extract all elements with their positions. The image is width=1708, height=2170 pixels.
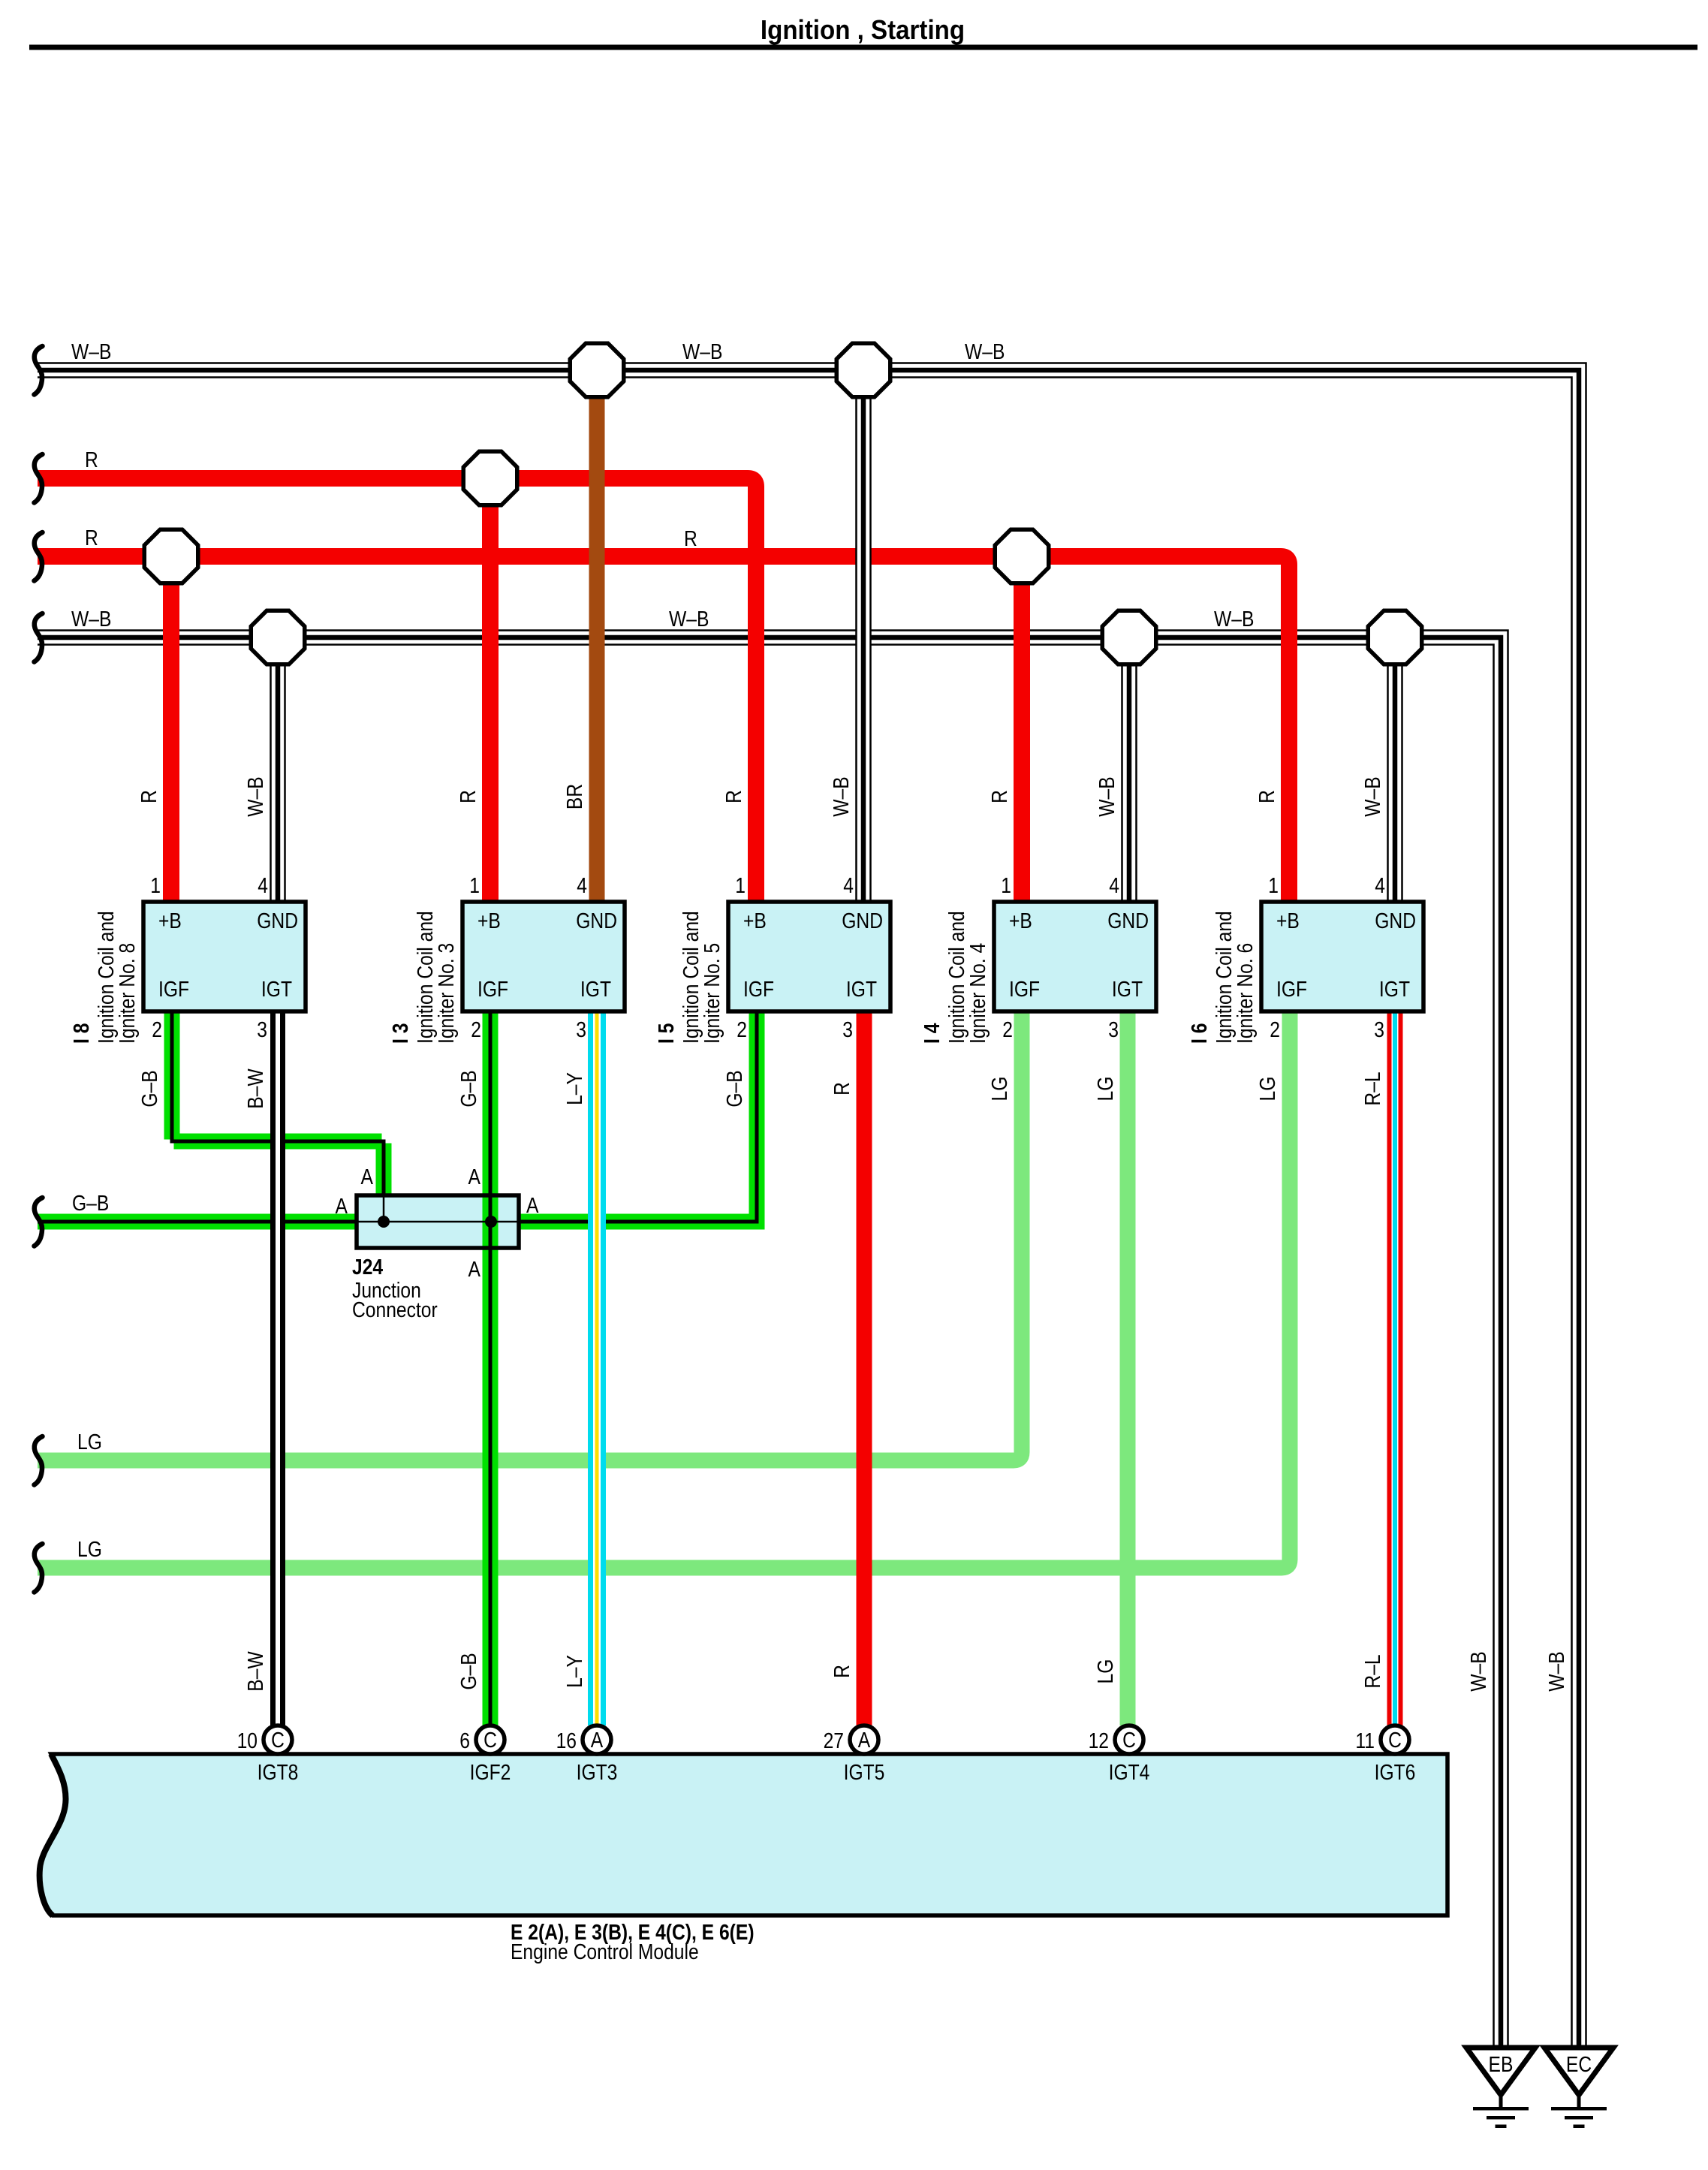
wire W-B bus 2 (horizontal, turns down at right to ground EB) xyxy=(38,637,1501,2047)
ECM terminal circle IGT8 connector C xyxy=(264,1725,292,1754)
junction octagon on R bus 2 (I4 +B tap) xyxy=(995,529,1049,583)
svg-text:A: A xyxy=(526,1193,538,1217)
svg-text:IGF: IGF xyxy=(1009,977,1040,1001)
junction octagon on R bus 1 (I3 +B tap) xyxy=(463,451,517,505)
junction octagon on W-B bus 1 (BR tap) xyxy=(570,343,624,397)
wire R from octagon on R bus 2 down to I8 +B pin 1 xyxy=(163,556,179,906)
ground EB bar 3 xyxy=(1496,2125,1507,2129)
svg-text:IGT: IGT xyxy=(1112,977,1143,1001)
wire W-B bus 1 (horizontal, turns down at right to ground EC) xyxy=(38,370,1579,2047)
svg-text:+B: +B xyxy=(1009,909,1032,933)
wire B-W from I8 IGT pin 3 down to ECM terminal IGT8 xyxy=(270,1008,285,1725)
junction octagon on R bus 2 (I8 +B tap) xyxy=(144,529,198,583)
svg-text:R: R xyxy=(721,790,746,803)
svg-text:+B: +B xyxy=(158,909,182,933)
svg-text:W–B: W–B xyxy=(829,776,853,816)
wire R from octagon on R bus 1 down to I3 +B pin 1 xyxy=(482,478,499,906)
svg-text:C: C xyxy=(1388,1728,1402,1752)
svg-text:A: A xyxy=(591,1728,603,1752)
svg-text:I 4: I 4 xyxy=(920,1023,944,1044)
wire BR from octagon on W-B bus 1 down to I3 GND pin 4 xyxy=(589,370,605,906)
svg-text:27: 27 xyxy=(824,1728,844,1753)
wire R from I5 IGT pin 3 down to ECM terminal IGT5 xyxy=(857,1008,872,1725)
svg-text:W–B: W–B xyxy=(243,776,267,816)
ignition coil and igniter I 5 box xyxy=(728,902,890,1011)
svg-text:G–B: G–B xyxy=(137,1070,161,1107)
ground EC triangle xyxy=(1544,2048,1613,2095)
svg-text:Igniter No. 3: Igniter No. 3 xyxy=(434,943,458,1044)
engine control module torn edge stroke xyxy=(40,1754,66,1915)
svg-text:G–B: G–B xyxy=(456,1070,480,1107)
continuation symbol for W-B bus 1 xyxy=(35,346,43,395)
svg-text:W–B: W–B xyxy=(682,339,722,363)
svg-text:1: 1 xyxy=(150,873,161,897)
svg-text:R: R xyxy=(137,790,161,803)
wire LG from I4 IGT pin 3 down to ECM terminal IGT4 xyxy=(1120,1008,1136,1725)
ground EB bar 2 xyxy=(1487,2116,1515,2120)
svg-text:R: R xyxy=(1255,790,1279,803)
svg-text:R: R xyxy=(85,448,98,472)
svg-text:4: 4 xyxy=(1375,873,1385,897)
ground EB stem xyxy=(1499,2094,1503,2108)
svg-text:LG: LG xyxy=(1093,1659,1117,1684)
svg-text:W–B: W–B xyxy=(1095,776,1119,816)
J24 junction dot A (right) xyxy=(485,1216,497,1228)
svg-text:I 3: I 3 xyxy=(388,1023,412,1044)
junction connector J24 box fill xyxy=(357,1195,519,1248)
svg-text:A: A xyxy=(468,1165,480,1189)
wire R bus 2 (horizontal, turns down at x=1717 to I6 +B) xyxy=(38,556,1289,906)
svg-text:I 8: I 8 xyxy=(69,1023,93,1044)
wire G-B from I8 IGF pin 2 down then right then down into J24 pin A xyxy=(172,1008,384,1196)
svg-text:A: A xyxy=(858,1728,870,1752)
svg-text:R: R xyxy=(85,526,98,550)
junction octagon on W-B bus 2 (I6 GND tap) xyxy=(1368,610,1422,665)
svg-text:1: 1 xyxy=(469,873,480,897)
svg-text:GND: GND xyxy=(1107,909,1149,933)
wire R from octagon on R bus 2 down to I4 +B pin 1 xyxy=(1014,556,1030,906)
svg-text:LG: LG xyxy=(987,1077,1011,1102)
continuation symbol for R bus 2 xyxy=(35,532,43,581)
svg-text:GND: GND xyxy=(257,909,298,933)
svg-text:1: 1 xyxy=(735,873,746,897)
svg-text:IGT: IGT xyxy=(261,977,292,1001)
svg-text:2: 2 xyxy=(471,1017,481,1041)
ECM terminal circle IGT5 connector A xyxy=(850,1725,878,1754)
svg-text:+B: +B xyxy=(477,909,501,933)
svg-text:LG: LG xyxy=(77,1430,102,1454)
svg-text:10: 10 xyxy=(237,1728,258,1753)
wire W-B from octagon on W-B bus 2 down to I6 GND pin 4 xyxy=(1387,637,1403,906)
svg-text:IGF: IGF xyxy=(477,977,508,1001)
continuation symbol for G-B bus xyxy=(35,1198,43,1246)
svg-text:C: C xyxy=(1122,1728,1136,1752)
svg-text:3: 3 xyxy=(1374,1017,1384,1041)
ground EB triangle xyxy=(1466,2048,1535,2095)
svg-text:I 6: I 6 xyxy=(1187,1023,1211,1044)
continuation symbol for R bus 1 xyxy=(35,454,43,503)
svg-text:3: 3 xyxy=(576,1017,586,1041)
wire G-B bus (horizontal, turns up at x=1008 to I5 IGF) xyxy=(38,1011,757,1222)
svg-text:BR: BR xyxy=(562,784,586,809)
svg-text:2: 2 xyxy=(1270,1017,1280,1041)
wire W-B from octagon on W-B bus 2 down to I4 GND pin 4 xyxy=(1122,637,1137,906)
svg-text:J24: J24 xyxy=(352,1255,383,1279)
svg-text:Engine Control Module: Engine Control Module xyxy=(511,1939,699,1964)
svg-text:4: 4 xyxy=(843,873,854,897)
wire LG bus 2 (horizontal, turns up at x=1718 to I6 IGF) xyxy=(38,1008,1290,1568)
continuation symbol for LG bus 1 xyxy=(35,1436,43,1485)
svg-text:EC: EC xyxy=(1566,2052,1592,2076)
svg-text:IGT: IGT xyxy=(1379,977,1410,1001)
svg-text:G–B: G–B xyxy=(722,1070,746,1107)
ground EC bar 1 xyxy=(1551,2107,1607,2111)
svg-text:Igniter No. 4: Igniter No. 4 xyxy=(965,943,990,1044)
ground EC stem xyxy=(1577,2094,1581,2108)
ignition coil and igniter I 6 box xyxy=(1261,902,1423,1011)
svg-text:Connector: Connector xyxy=(352,1297,438,1322)
svg-text:A: A xyxy=(468,1257,480,1281)
ECM terminal circle IGF2 connector C xyxy=(476,1725,505,1754)
svg-text:IGT8: IGT8 xyxy=(258,1760,299,1784)
svg-text:4: 4 xyxy=(258,873,268,897)
junction octagon on W-B bus 2 (I4 GND tap) xyxy=(1102,610,1156,665)
svg-text:Igniter No. 6: Igniter No. 6 xyxy=(1233,943,1257,1044)
svg-text:+B: +B xyxy=(1276,909,1300,933)
svg-text:1: 1 xyxy=(1268,873,1279,897)
ignition coil and igniter I 4 box xyxy=(994,902,1156,1011)
svg-text:G–B: G–B xyxy=(456,1653,480,1689)
svg-text:C: C xyxy=(271,1728,285,1752)
junction octagon on W-B bus 1 (I5 GND tap) xyxy=(836,343,890,397)
continuation symbol for LG bus 2 xyxy=(35,1544,43,1593)
svg-text:C: C xyxy=(483,1728,497,1752)
wire R-L from I6 IGT pin 3 down to ECM terminal IGT6 xyxy=(1387,1008,1403,1725)
wire W-B from octagon on W-B bus 2 down to I8 GND pin 4 xyxy=(270,637,286,906)
svg-text:Igniter No. 5: Igniter No. 5 xyxy=(700,943,724,1044)
ECM terminal circle IGT6 connector C xyxy=(1381,1725,1409,1754)
svg-text:IGT4: IGT4 xyxy=(1109,1760,1150,1784)
svg-text:IGF2: IGF2 xyxy=(470,1760,511,1784)
svg-text:W–B: W–B xyxy=(1544,1651,1568,1691)
svg-text:B–W: B–W xyxy=(243,1068,267,1109)
svg-text:R: R xyxy=(684,526,697,550)
svg-text:W–B: W–B xyxy=(1214,607,1254,631)
J24 internal bus line xyxy=(357,1221,519,1223)
svg-text:IGT3: IGT3 xyxy=(577,1760,618,1784)
ignition coil and igniter I 8 box xyxy=(143,902,306,1011)
svg-text:A: A xyxy=(361,1165,373,1189)
wire R bus 1 (horizontal, turns down at x=1007 to I5 +B) xyxy=(38,478,756,906)
ground EC bar 2 xyxy=(1565,2116,1593,2120)
svg-text:IGT6: IGT6 xyxy=(1375,1760,1416,1784)
svg-text:3: 3 xyxy=(257,1017,267,1041)
svg-text:IGF: IGF xyxy=(1276,977,1307,1001)
svg-text:R–L: R–L xyxy=(1360,1071,1384,1105)
J24 junction dot A (left) xyxy=(378,1216,390,1228)
junction connector J24 box border xyxy=(357,1195,519,1248)
ground EB bar 1 xyxy=(1473,2107,1529,2111)
svg-text:2: 2 xyxy=(1002,1017,1013,1041)
svg-text:Igniter No. 8: Igniter No. 8 xyxy=(115,943,139,1044)
continuation symbol for W-B bus 2 xyxy=(35,613,43,662)
svg-text:GND: GND xyxy=(1375,909,1416,933)
ignition coil and igniter I 3 box xyxy=(462,902,625,1011)
svg-text:GND: GND xyxy=(842,909,883,933)
svg-text:R: R xyxy=(830,1665,854,1678)
svg-text:EB: EB xyxy=(1489,2052,1514,2076)
svg-text:W–B: W–B xyxy=(1360,776,1384,816)
wire L-Y from I3 IGT pin 3 down to ECM terminal IGT3 xyxy=(589,1008,605,1725)
svg-text:W–B: W–B xyxy=(71,339,111,363)
svg-text:G–B: G–B xyxy=(72,1191,109,1215)
svg-text:I 5: I 5 xyxy=(654,1023,678,1044)
svg-text:R–L: R–L xyxy=(1360,1654,1384,1688)
title rule xyxy=(29,45,1697,50)
svg-text:4: 4 xyxy=(577,873,587,897)
svg-text:R: R xyxy=(456,790,480,803)
svg-text:R: R xyxy=(987,790,1011,803)
svg-text:3: 3 xyxy=(1108,1017,1119,1041)
svg-text:IGF: IGF xyxy=(158,977,189,1001)
wire G-B from I3 IGF pin 2 down through J24 pin A to ECM terminal IGF2 xyxy=(483,1008,499,1725)
svg-text:W–B: W–B xyxy=(1466,1651,1490,1691)
junction octagon on W-B bus 2 (I8 GND tap) xyxy=(251,610,305,665)
engine control module box (torn left edge) xyxy=(40,1754,1447,1915)
svg-text:12: 12 xyxy=(1089,1728,1109,1753)
svg-text:6: 6 xyxy=(459,1728,470,1753)
svg-text:W–B: W–B xyxy=(71,607,111,631)
svg-text:A: A xyxy=(336,1194,348,1218)
svg-text:B–W: B–W xyxy=(243,1651,267,1692)
svg-text:+B: +B xyxy=(743,909,767,933)
ECM terminal circle IGT3 connector A xyxy=(583,1725,611,1754)
svg-text:IGT: IGT xyxy=(580,977,611,1001)
svg-text:IGT: IGT xyxy=(846,977,877,1001)
svg-text:GND: GND xyxy=(576,909,617,933)
svg-text:16: 16 xyxy=(556,1728,577,1753)
ECM terminal circle IGT4 connector C xyxy=(1115,1725,1143,1754)
svg-text:W–B: W–B xyxy=(965,339,1005,363)
svg-text:L–Y: L–Y xyxy=(562,1072,586,1105)
svg-text:R: R xyxy=(830,1082,854,1096)
svg-text:L–Y: L–Y xyxy=(562,1655,586,1688)
svg-text:11: 11 xyxy=(1355,1728,1375,1753)
svg-text:W–B: W–B xyxy=(669,607,709,631)
svg-text:2: 2 xyxy=(152,1017,162,1041)
svg-text:3: 3 xyxy=(842,1017,853,1041)
wire W-B from octagon on W-B bus 1 down to I5 GND pin 4 xyxy=(856,370,872,906)
svg-text:LG: LG xyxy=(1093,1077,1117,1102)
svg-text:2: 2 xyxy=(737,1017,747,1041)
svg-text:4: 4 xyxy=(1109,873,1119,897)
wire LG bus 1 (horizontal, turns up at x=1361 to I4 IGF) xyxy=(38,1008,1022,1460)
svg-text:Ignition , Starting: Ignition , Starting xyxy=(761,16,965,46)
svg-text:LG: LG xyxy=(1255,1077,1279,1102)
svg-text:IGT5: IGT5 xyxy=(844,1760,885,1784)
svg-text:LG: LG xyxy=(77,1537,102,1561)
J24 internal stub from pin A drop to junction dot xyxy=(383,1195,385,1222)
svg-text:IGF: IGF xyxy=(743,977,774,1001)
ground EC bar 3 xyxy=(1574,2125,1585,2129)
svg-text:1: 1 xyxy=(1001,873,1011,897)
